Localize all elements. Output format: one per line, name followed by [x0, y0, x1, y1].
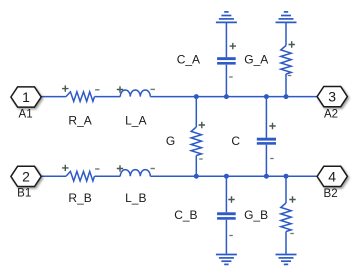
wire stem C_A branch [225, 23, 227, 97]
node B-G_B [284, 174, 289, 179]
svg-text:2: 2 [22, 168, 30, 184]
polarity + L_A [117, 86, 123, 92]
polarity - C_A [229, 76, 233, 78]
polarity + G_A [289, 41, 295, 47]
polarity + L_B [117, 165, 123, 171]
polarity - C_B [229, 235, 233, 237]
svg-text:G: G [166, 134, 175, 148]
svg-text:3: 3 [328, 89, 336, 105]
svg-text:C: C [231, 134, 240, 148]
node A-C [264, 94, 269, 99]
resistor G [191, 127, 201, 156]
wire stem C_B branch [225, 176, 227, 254]
polarity - G_A [288, 75, 292, 77]
polarity - G_B [290, 233, 294, 235]
resistor R_A [66, 92, 95, 102]
svg-text:R_B: R_B [68, 191, 91, 205]
polarity + G [199, 122, 205, 128]
polarity - R_A [95, 89, 99, 91]
resistor G_B [281, 203, 291, 232]
node B-C [264, 174, 269, 179]
capacitor C [257, 138, 276, 145]
wire stem C branch (middle right) [265, 97, 267, 177]
wire stem G branch (middle left) [195, 97, 197, 177]
svg-text:L_B: L_B [125, 191, 146, 205]
polarity - L_B [151, 168, 155, 170]
polarity + R_B [62, 165, 68, 171]
port 3 hexagon [317, 87, 347, 107]
svg-text:R_A: R_A [68, 113, 91, 127]
node B-C_B [224, 174, 229, 179]
ground (bottom, below C_B) [216, 255, 237, 265]
svg-text:C_B: C_B [174, 208, 197, 222]
port 1 hexagon [11, 87, 41, 107]
wire line B segments [41, 175, 317, 177]
node A-G_A [284, 94, 289, 99]
svg-text:A1: A1 [19, 108, 33, 120]
capacitor C_B [217, 212, 236, 219]
wire line A segments [41, 96, 317, 98]
inductor L_B [120, 170, 150, 177]
wire stem G_B branch [285, 176, 287, 254]
svg-text:G_A: G_A [244, 53, 268, 67]
ground (top, above G_A) [276, 12, 297, 23]
ground (bottom, below G_B) [276, 255, 297, 265]
polarity + C [269, 123, 275, 129]
svg-text:C_A: C_A [177, 53, 200, 67]
svg-text:L_A: L_A [125, 113, 146, 127]
polarity - L_A [151, 88, 155, 90]
polarity - G [199, 158, 203, 160]
svg-text:B2: B2 [324, 188, 338, 200]
node B-G [194, 174, 199, 179]
port 2 hexagon [11, 166, 41, 186]
wire stem G_A branch [285, 23, 287, 97]
svg-text:G_B: G_B [244, 208, 268, 222]
polarity + R_A [62, 85, 68, 91]
node A-C_A [224, 94, 229, 99]
port 4 hexagon [317, 166, 347, 186]
resistor G_A [281, 46, 291, 75]
node A-G [194, 94, 199, 99]
polarity + C_A [230, 43, 236, 49]
inductor L_A [120, 90, 150, 97]
ground (top, above C_A) [216, 12, 237, 23]
polarity + C_B [228, 196, 234, 202]
svg-text:1: 1 [22, 89, 30, 105]
polarity + G_B [289, 196, 295, 202]
polarity - C [270, 158, 274, 160]
svg-text:B1: B1 [17, 187, 31, 199]
svg-text:A2: A2 [324, 108, 338, 120]
resistor R_B [66, 171, 95, 181]
capacitor C_A [217, 57, 236, 64]
polarity - R_B [95, 168, 99, 170]
svg-text:4: 4 [328, 168, 336, 184]
